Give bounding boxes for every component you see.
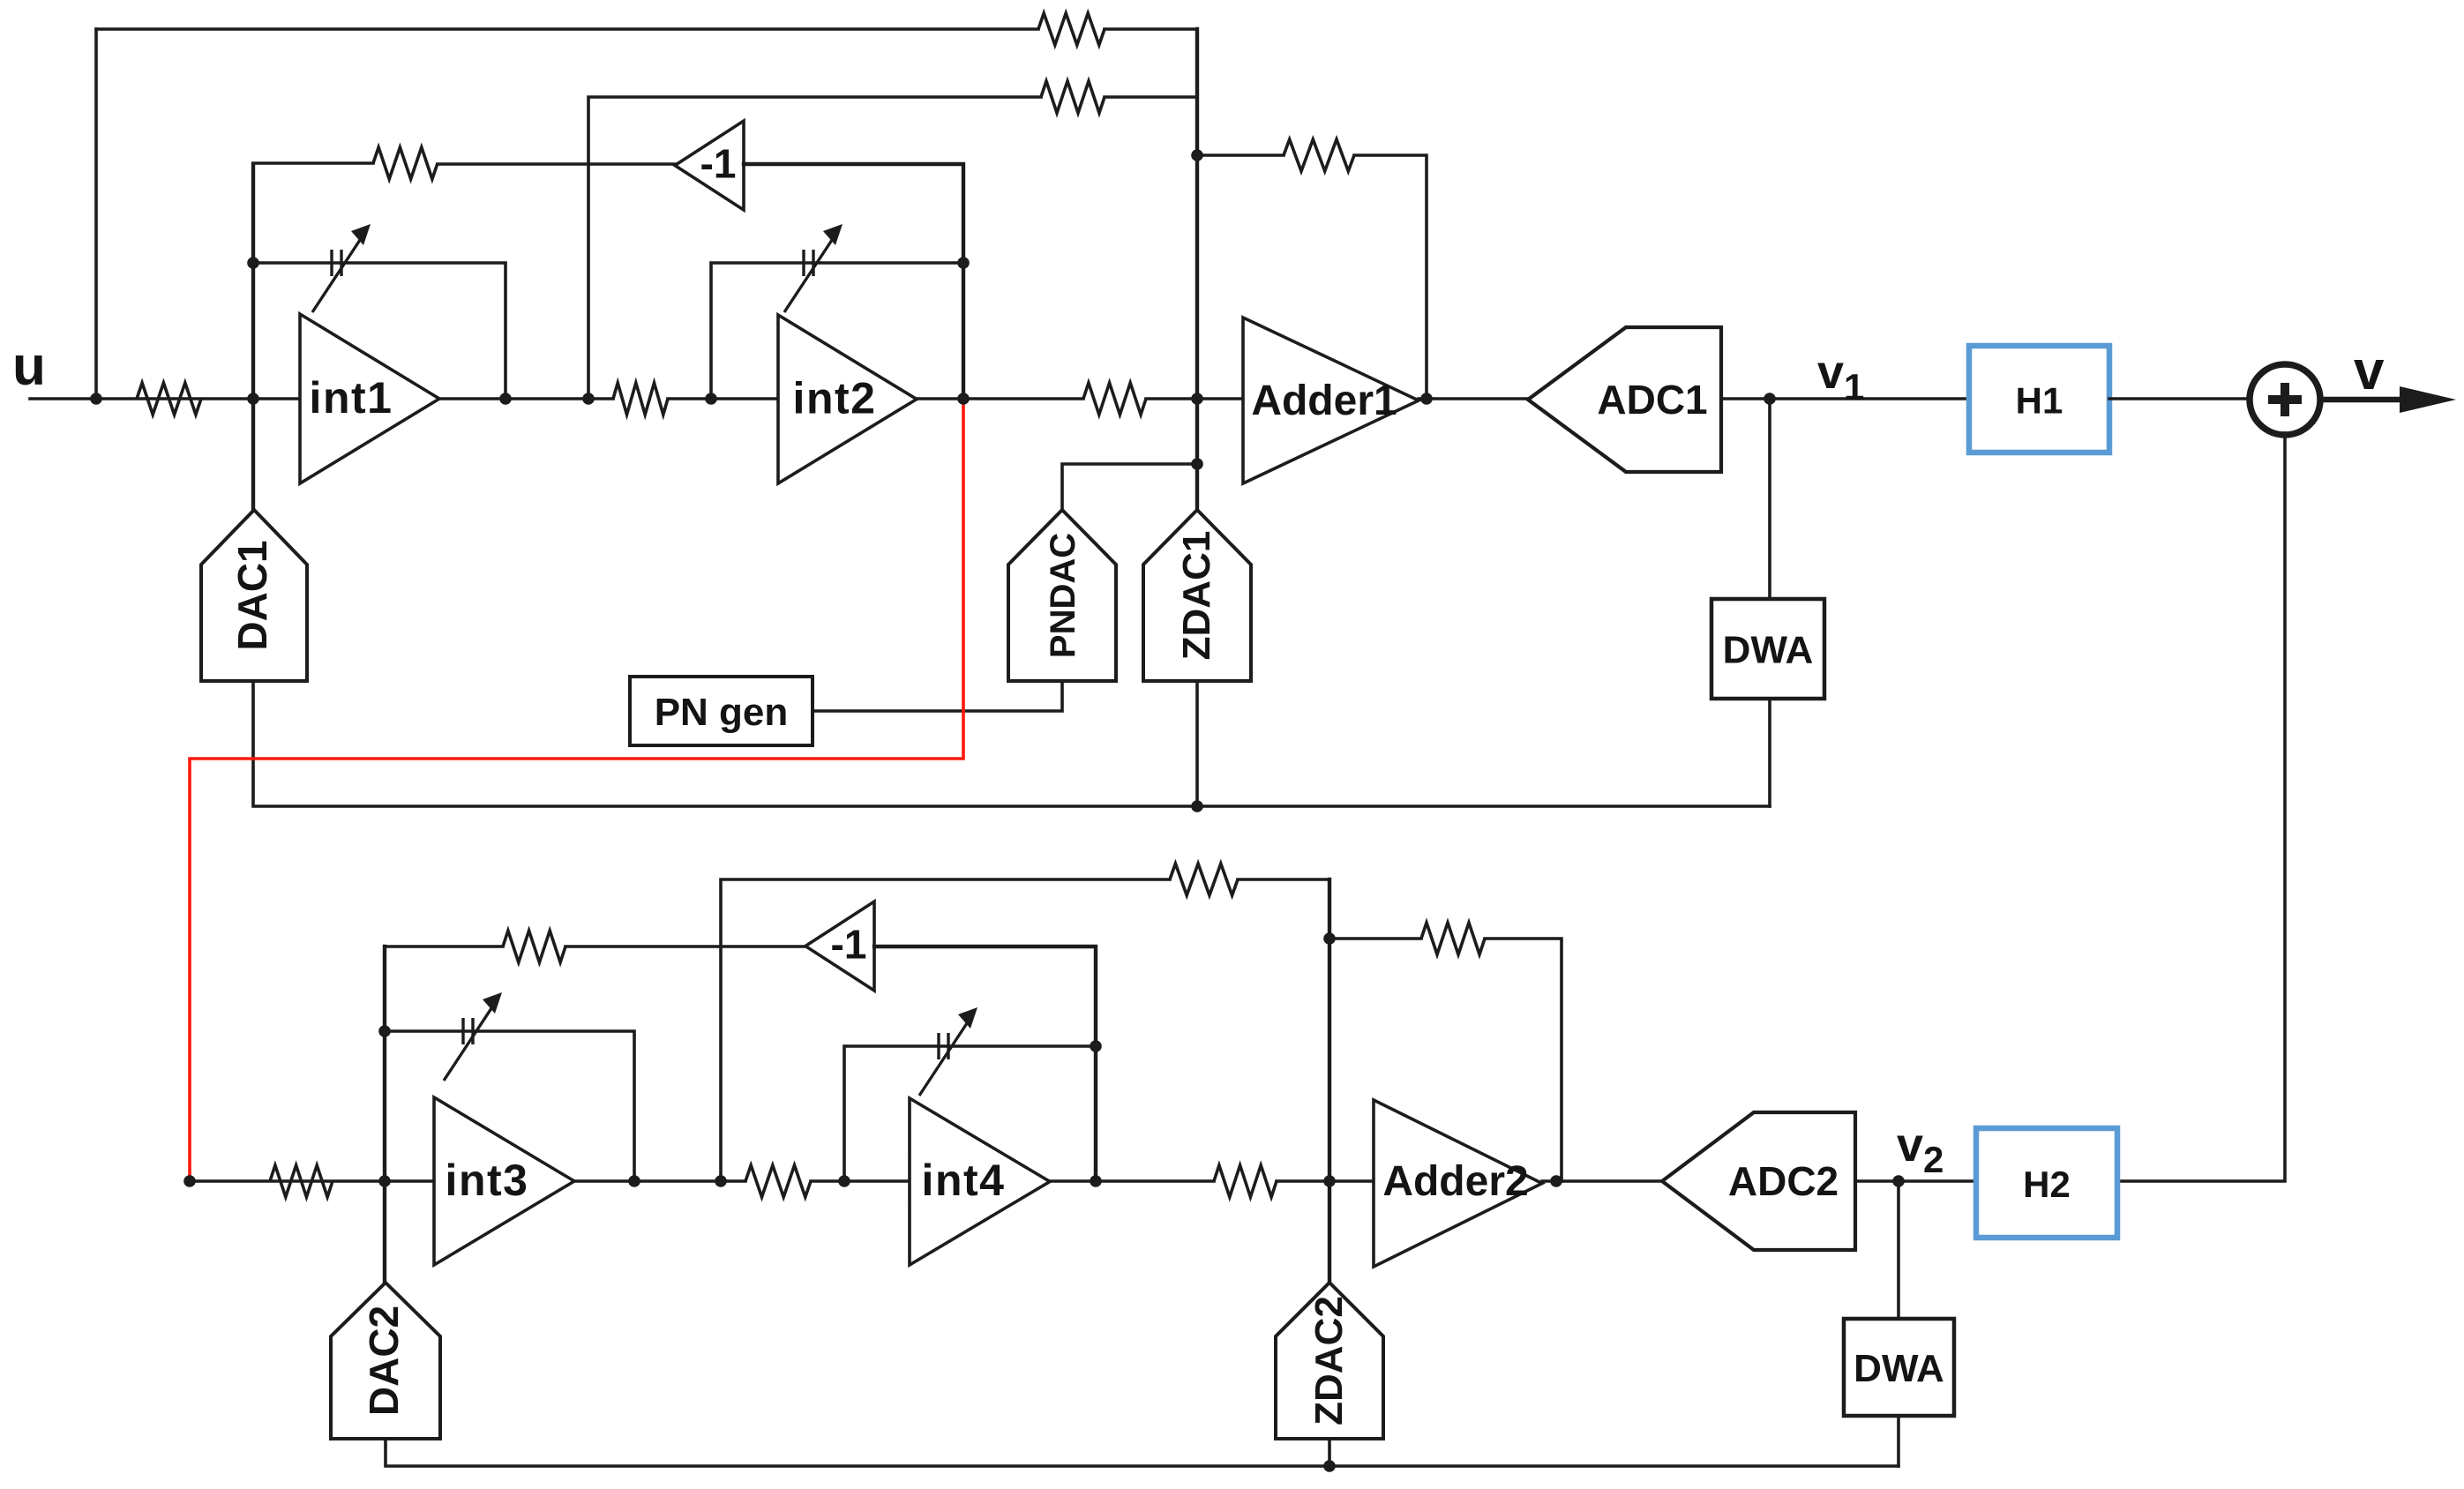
- node cap3 output: [628, 1175, 640, 1187]
- wire int1 node vertical: [251, 164, 255, 510]
- wire int1 feedforward right: [1105, 95, 1197, 99]
- svg-text:-1: -1: [831, 922, 867, 968]
- node ZDAC1 feedback: [1191, 800, 1203, 812]
- block DWA upper: [1711, 599, 1824, 699]
- svg-text:H2: H2: [2023, 1164, 2071, 1205]
- op-amp int3: [434, 1097, 574, 1265]
- node Adder1 output: [1420, 393, 1433, 405]
- resistor Adder1 feedback: [1284, 139, 1354, 171]
- node v1: [1764, 393, 1776, 405]
- wire int1 output feedforward vertical: [588, 97, 1041, 399]
- node cap1 branch: [247, 257, 259, 269]
- wire Adder1 feedback left: [1197, 153, 1284, 157]
- node Adder2 feedback branch: [1323, 932, 1336, 945]
- amplifier -1 lower: [805, 902, 874, 991]
- node bus main crossing: [1191, 393, 1203, 405]
- svg-text:DWA: DWA: [1723, 629, 1814, 672]
- node stage2 input: [183, 1175, 196, 1187]
- wire Adder1 to ADC1: [1419, 397, 1528, 400]
- svg-text:H1: H1: [2016, 380, 2063, 422]
- wire Adder2 feedback right: [1485, 939, 1562, 1181]
- svg-text:PN gen: PN gen: [655, 691, 789, 734]
- op-amp Adder2: [1374, 1100, 1542, 1267]
- resistor int3 feedback: [503, 931, 565, 962]
- svg-text:v1: v1: [1817, 346, 1864, 408]
- arrow output v: [2318, 386, 2456, 413]
- node v2: [1892, 1175, 1905, 1187]
- wire int3 feedforward right: [1238, 878, 1329, 881]
- node bus2 main crossing: [1323, 1175, 1336, 1187]
- adc ADC2: [1662, 1112, 1855, 1250]
- op-amp int4: [910, 1098, 1050, 1265]
- wire top feedforward right: [1105, 27, 1197, 31]
- wire upper feedback bus: [253, 681, 1770, 806]
- dac ZDAC1: [1143, 510, 1251, 681]
- resistor input R1: [137, 383, 201, 415]
- wire resistor to -1a tip: [438, 162, 675, 166]
- resistor int3 feedforward: [1170, 864, 1238, 895]
- svg-text:DAC1: DAC1: [229, 540, 275, 650]
- capacitor int4 variable: [919, 1007, 977, 1096]
- wire PN gen to PNDAC: [813, 681, 1062, 711]
- wire int3 feedback top: [385, 945, 503, 948]
- op-amp int1: [300, 314, 439, 483]
- wire cap4 line: [844, 1046, 1096, 1181]
- node cap3 branch: [378, 1025, 391, 1037]
- node cap2 junction: [957, 257, 970, 269]
- resistor int1 to int2: [613, 383, 668, 415]
- summer output junction: [2250, 364, 2320, 435]
- svg-text:ADC2: ADC2: [1728, 1158, 1839, 1204]
- wire int1 output: [439, 397, 613, 400]
- block PN gen: [630, 677, 813, 745]
- node int3 output branch: [715, 1175, 727, 1187]
- svg-text:int2: int2: [793, 374, 877, 423]
- resistor stage2 input: [270, 1165, 333, 1197]
- svg-text:int4: int4: [922, 1156, 1006, 1205]
- wire cap1 line: [253, 263, 506, 399]
- wire lower feedback bus: [386, 1439, 1899, 1466]
- resistor int2 to Adder1: [1083, 383, 1146, 415]
- capacitor int1 variable: [312, 224, 371, 312]
- svg-text:v2: v2: [1897, 1119, 1943, 1180]
- svg-text:DAC2: DAC2: [361, 1306, 407, 1416]
- svg-text:v: v: [2354, 340, 2385, 401]
- svg-text:int1: int1: [310, 373, 393, 423]
- wire red int2 output to stage2: [190, 401, 963, 1181]
- wire int4 output: [1050, 1179, 1214, 1183]
- wire -1a output to int2 column: [744, 164, 963, 399]
- wire resistor to int2: [668, 397, 778, 400]
- wire ADC1 output v1: [1721, 397, 1969, 400]
- op-amp Adder1: [1243, 318, 1419, 483]
- svg-text:u: u: [12, 336, 46, 397]
- svg-text:PNDAC: PNDAC: [1044, 533, 1082, 658]
- svg-text:ZDAC1: ZDAC1: [1175, 531, 1218, 661]
- resistor int4 to Adder2: [1214, 1165, 1277, 1197]
- wire summer to H2: [2117, 433, 2285, 1181]
- wire PNDAC branch: [1062, 464, 1197, 510]
- wire DWA1 to feedback bus: [1768, 699, 1771, 806]
- node int4 output: [1090, 1175, 1102, 1187]
- resistor int1 feedforward: [1041, 81, 1105, 113]
- svg-text:Adder2: Adder2: [1382, 1158, 1528, 1205]
- wire input feedforward vertical: [94, 29, 98, 399]
- wire cap3 line: [385, 1031, 634, 1181]
- block H1: [1969, 346, 2109, 453]
- wire resistor to -1b tip: [565, 945, 805, 948]
- node cap1 output: [499, 393, 512, 405]
- wire v1 to DWA1: [1768, 399, 1771, 599]
- wire top feedforward left: [96, 27, 1038, 31]
- node int4 input: [838, 1175, 850, 1187]
- node ZDAC2 feedback: [1323, 1460, 1336, 1472]
- wire ZDAC1 bottom: [1195, 681, 1199, 806]
- node cap4 junction: [1090, 1040, 1102, 1052]
- node PNDAC branch: [1191, 458, 1203, 470]
- wire int3 output: [574, 1179, 745, 1183]
- wire resistor to int4: [811, 1179, 910, 1183]
- dac DAC2: [331, 1283, 440, 1439]
- wire int2 output: [917, 397, 1083, 400]
- wire ZDAC2 bottom: [1328, 1439, 1331, 1466]
- wire int1 feedback top: [253, 161, 373, 165]
- svg-text:ADC1: ADC1: [1597, 377, 1707, 423]
- adc ADC1: [1528, 327, 1721, 472]
- wire Adder2 to ADC2: [1542, 1179, 1662, 1183]
- wire int3 node vertical: [383, 947, 386, 1283]
- block H2: [1976, 1128, 2117, 1238]
- resistor Adder2 feedback: [1421, 923, 1485, 954]
- wire Adder1 feedback right: [1354, 155, 1427, 399]
- svg-text:ZDAC2: ZDAC2: [1307, 1296, 1351, 1425]
- resistor input feedforward: [1038, 13, 1105, 45]
- dac DAC1: [201, 510, 307, 681]
- dac ZDAC2: [1276, 1283, 1383, 1439]
- node int1 output branch: [582, 393, 595, 405]
- wire resistor to Adder2: [1277, 1179, 1374, 1183]
- node input split: [90, 393, 102, 405]
- wire Adder2 feedback left: [1329, 937, 1421, 940]
- node int1 input: [247, 393, 259, 405]
- wire int3 feedforward vertical: [721, 879, 1170, 1181]
- wire DWA2 to bottom bus: [1897, 1416, 1900, 1466]
- wire H1 to summer: [2109, 397, 2251, 400]
- wire ZDAC1 bus: [1195, 29, 1199, 510]
- op-amp int2: [778, 315, 917, 483]
- node int2 input: [705, 393, 717, 405]
- resistor int3 to int4: [745, 1165, 811, 1197]
- svg-text:-1: -1: [700, 141, 737, 187]
- wire -1b output to int4 column: [874, 947, 1096, 1181]
- svg-text:int3: int3: [446, 1156, 529, 1205]
- capacitor int2 variable: [784, 224, 843, 312]
- node int3 input: [378, 1175, 391, 1187]
- wire ADC2 output v2: [1855, 1179, 1976, 1183]
- node int2 output: [957, 393, 970, 405]
- node Adder2 output: [1550, 1175, 1562, 1187]
- resistor int1 feedback: [373, 147, 438, 179]
- node Adder1 feedback branch: [1191, 149, 1203, 161]
- dac PNDAC: [1008, 510, 1116, 681]
- block DWA lower: [1844, 1319, 1954, 1416]
- capacitor int3 variable: [444, 992, 502, 1081]
- svg-text:Adder1: Adder1: [1251, 378, 1397, 424]
- wire ZDAC2 bus: [1328, 879, 1331, 1283]
- wire cap2 line: [711, 263, 963, 399]
- svg-text:DWA: DWA: [1854, 1347, 1944, 1390]
- wire stage2 input: [190, 1179, 434, 1183]
- wire v2 to DWA2: [1897, 1181, 1900, 1319]
- wire u input to int1: [30, 397, 300, 400]
- amplifier -1 upper: [675, 121, 744, 210]
- wire resistor to Adder1: [1146, 397, 1243, 400]
